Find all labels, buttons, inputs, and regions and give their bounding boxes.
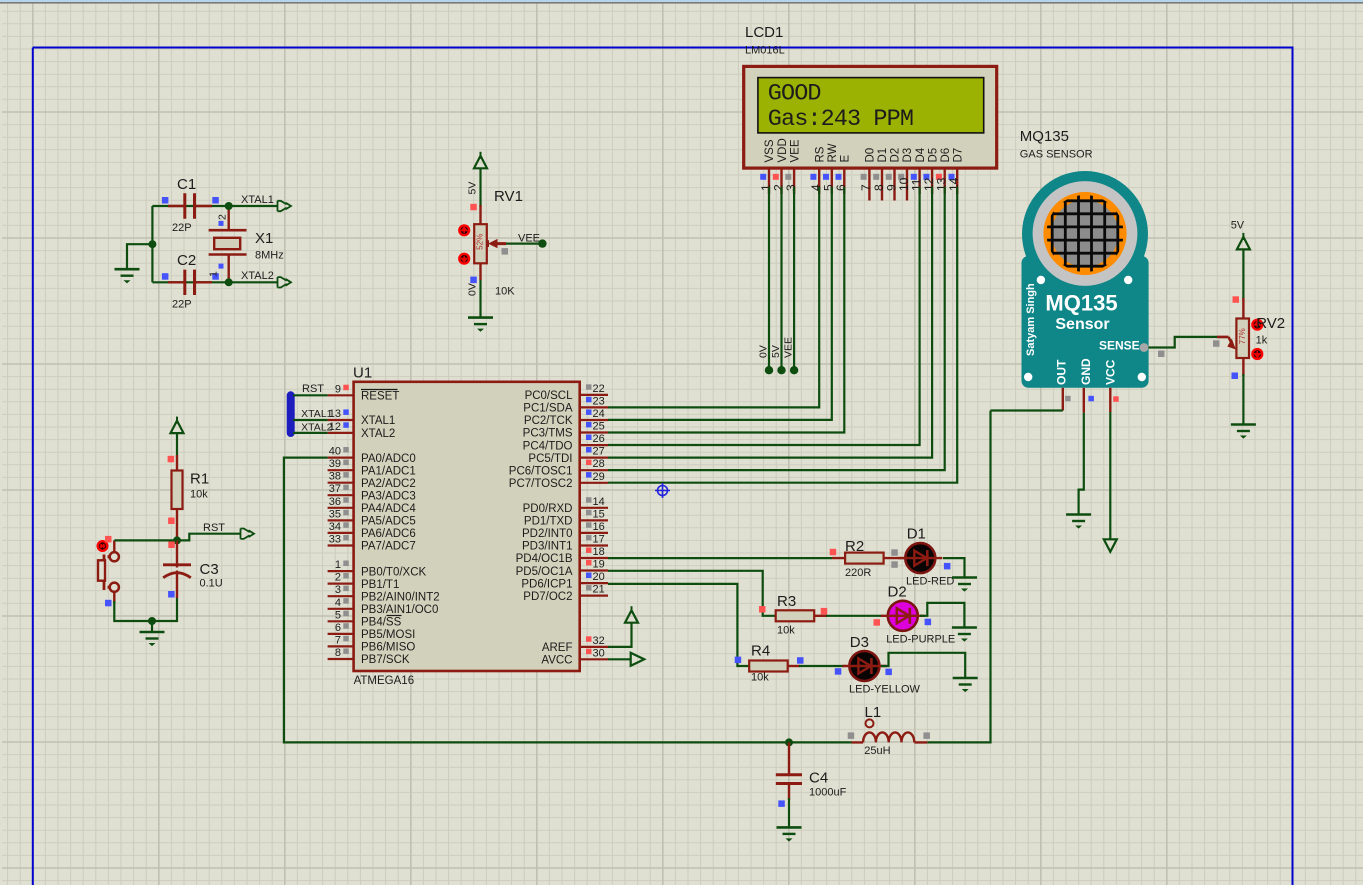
capacitor C4	[776, 742, 847, 807]
pin PB6/MISO (7)	[328, 645, 354, 647]
svg-text:C3: C3	[200, 561, 219, 578]
svg-text:D2: D2	[890, 148, 902, 163]
svg-text:PB7/SCK: PB7/SCK	[361, 654, 410, 666]
svg-text:40: 40	[329, 446, 341, 458]
svg-text:8MHz: 8MHz	[255, 250, 284, 262]
wire button top to RST node	[114, 539, 177, 541]
svg-text:PA7/ADC7: PA7/ADC7	[361, 541, 416, 553]
power arrow AREF	[608, 623, 632, 647]
power arrow down (VCC)	[1104, 539, 1117, 552]
junction ground rail	[148, 617, 156, 625]
LCD pin D7 (14)	[947, 148, 965, 194]
svg-text:XTAL2: XTAL2	[301, 422, 332, 434]
pin PA1/ADC1 (39)	[328, 469, 354, 471]
svg-text:PB3/AIN1/OC0: PB3/AIN1/OC0	[361, 604, 438, 616]
svg-text:0V: 0V	[758, 345, 770, 358]
svg-text:R3: R3	[777, 593, 796, 610]
LCD LM016L body	[744, 66, 997, 168]
svg-text:PD5/OC1A: PD5/OC1A	[516, 566, 573, 578]
wire PC1-RS	[608, 187, 819, 407]
svg-text:AVCC: AVCC	[541, 655, 572, 667]
svg-text:C4: C4	[809, 770, 828, 787]
LCD pin VDD (2)	[771, 138, 789, 194]
wire ground branch	[127, 244, 152, 269]
svg-text:36: 36	[329, 496, 341, 508]
svg-text:37: 37	[329, 483, 341, 495]
svg-text:AREF: AREF	[542, 642, 573, 654]
capacitor C3 (polarized)	[163, 540, 223, 598]
svg-text:VSS: VSS	[764, 139, 776, 162]
svg-text:0V: 0V	[467, 283, 479, 296]
svg-text:PB0/T0/XCK: PB0/T0/XCK	[361, 566, 427, 578]
svg-text:PA1/ADC1: PA1/ADC1	[361, 465, 416, 477]
svg-text:PC1/SDA: PC1/SDA	[523, 403, 573, 415]
ground (RV1)	[468, 318, 493, 332]
wire PA0 to bottom rail	[284, 458, 789, 743]
svg-text:0.1U: 0.1U	[200, 578, 223, 590]
svg-text:PC0/SCL: PC0/SCL	[525, 390, 574, 402]
svg-text:PD4/OC1B: PD4/OC1B	[516, 553, 573, 565]
svg-text:D6: D6	[940, 148, 952, 163]
svg-text:26: 26	[593, 433, 605, 445]
svg-text:VEE: VEE	[518, 232, 540, 244]
pin PB5/MOSI (6)	[328, 633, 354, 635]
svg-text:5V: 5V	[467, 182, 479, 195]
terminal 0V	[765, 366, 773, 374]
power 5V arrow (RV2)	[1237, 237, 1250, 250]
ground (RST group)	[151, 621, 153, 632]
svg-text:VEE: VEE	[783, 337, 795, 358]
svg-text:RV2: RV2	[1256, 315, 1285, 332]
svg-text:LM016L: LM016L	[745, 45, 785, 57]
svg-text:PD2/INT0: PD2/INT0	[522, 528, 573, 540]
svg-text:1: 1	[335, 559, 341, 571]
svg-text:7: 7	[335, 634, 341, 646]
pin PC6/TOSC1 (28)	[580, 469, 608, 471]
junction XTAL1	[225, 202, 233, 210]
pin PA2/ADC2 (38)	[328, 482, 354, 484]
svg-text:23: 23	[593, 395, 605, 407]
svg-text:5V: 5V	[1231, 220, 1245, 232]
pin PA0/ADC0 (40)	[328, 457, 354, 459]
svg-text:9: 9	[335, 383, 341, 395]
LED D1 (red)	[898, 526, 954, 588]
svg-text:PA2/ADC2: PA2/ADC2	[361, 478, 416, 490]
ground (D3)	[953, 678, 978, 692]
resistor R3	[776, 593, 882, 637]
potentiometer RV1	[459, 182, 523, 298]
pin PB0/T0/XCK (1)	[328, 570, 354, 572]
svg-text:LED-RED: LED-RED	[906, 576, 954, 588]
svg-text:33: 33	[329, 534, 341, 546]
wire LCD pin 2 to 5V terminal	[780, 187, 782, 370]
resistor R4	[749, 643, 844, 684]
svg-text:GAS SENSOR: GAS SENSOR	[1020, 148, 1093, 160]
svg-text:19: 19	[593, 559, 605, 571]
wire RST to port	[177, 534, 240, 541]
LED D3 (yellow)	[835, 634, 921, 695]
svg-text:1k: 1k	[1256, 335, 1268, 347]
pin PD7/OC2 (21)	[580, 594, 608, 596]
svg-text:VCC: VCC	[1104, 359, 1118, 385]
wire XTAL2 net (C2 to X1 bottom, XTAL2 port)	[152, 281, 277, 283]
svg-text:ATMEGA16: ATMEGA16	[354, 675, 415, 687]
pin PA4/ADC4 (36)	[328, 507, 354, 509]
svg-text:XTAL2: XTAL2	[241, 270, 274, 282]
inductor L1	[848, 704, 930, 757]
pin PC1/SDA (23)	[580, 406, 608, 408]
pin PC2/TCK (24)	[580, 419, 608, 421]
wire D2 to ground	[920, 603, 964, 627]
wire PC6-D6	[608, 187, 945, 470]
resistor R1	[168, 455, 210, 540]
pin PD3/INT1 (17)	[580, 544, 608, 546]
wire LCD pin 3 to VEE terminal	[793, 187, 795, 370]
pin PB1/T1 (2)	[328, 582, 354, 584]
cursor crosshair	[655, 483, 670, 498]
svg-text:D3: D3	[850, 634, 869, 651]
pin PC4/TDO (26)	[580, 444, 608, 446]
crystal X1	[208, 206, 284, 282]
svg-text:XTAL2: XTAL2	[361, 428, 395, 440]
wire GND to ground	[1079, 413, 1084, 514]
wire PD5 to R3	[608, 571, 776, 616]
bus bar (reset/xtal)	[287, 395, 295, 433]
ground (D1)	[952, 578, 977, 592]
svg-text:16: 16	[593, 521, 605, 533]
capacitor C1	[162, 176, 219, 234]
svg-text:34: 34	[329, 521, 341, 533]
svg-text:PC4/TDO: PC4/TDO	[523, 440, 573, 452]
wire bottom rail right segment	[789, 741, 852, 743]
pin PD2/INT0 (16)	[580, 532, 608, 534]
svg-text:14: 14	[947, 177, 961, 191]
LCD pin D0 (7)	[859, 148, 876, 201]
svg-text:29: 29	[593, 471, 605, 483]
svg-text:28: 28	[593, 458, 605, 470]
LCD pin D5 (12)	[922, 148, 940, 194]
ground (crystal)	[115, 269, 140, 283]
pin PB2/AIN0/INT2 (3)	[328, 595, 354, 597]
pin PD4/OC1B (18)	[580, 557, 608, 559]
svg-text:77%: 77%	[1238, 328, 1247, 344]
svg-text:220R: 220R	[845, 567, 871, 579]
svg-text:32: 32	[593, 635, 605, 647]
svg-text:PC7/TOSC2: PC7/TOSC2	[509, 478, 573, 490]
svg-text:XTAL1: XTAL1	[241, 194, 274, 206]
wire C1/C2 left vertical to ground	[151, 206, 153, 282]
sensor MQ135 body	[1022, 171, 1149, 388]
svg-text:D4: D4	[915, 147, 927, 162]
svg-text:27: 27	[593, 446, 605, 458]
pin PA3/ADC3 (37)	[328, 494, 354, 496]
svg-text:R2: R2	[845, 538, 864, 555]
svg-text:PA4/ADC4: PA4/ADC4	[361, 503, 416, 515]
svg-text:D1: D1	[877, 148, 889, 163]
wire D3 to ground	[881, 653, 965, 678]
junction C1-C2-ground	[148, 240, 156, 248]
svg-text:PC2/TCK: PC2/TCK	[524, 415, 573, 427]
svg-text:10K: 10K	[495, 286, 515, 298]
wire PC5-D5	[608, 187, 932, 458]
wire SENSE to RV2 wiper	[1148, 337, 1218, 348]
svg-text:PA3/ADC3: PA3/ADC3	[361, 490, 416, 502]
svg-text:6: 6	[834, 184, 848, 191]
svg-text:OUT: OUT	[1055, 359, 1069, 385]
wire VCC down	[1109, 412, 1111, 539]
svg-text:C1: C1	[177, 176, 196, 193]
wire button bottom / C3 bottom to ground rail	[114, 598, 177, 621]
svg-text:15: 15	[593, 508, 605, 520]
svg-text:RW: RW	[827, 143, 839, 162]
pin PC0/SCL (22)	[580, 394, 608, 396]
pin PB7/SCK (8)	[328, 658, 354, 660]
svg-text:3: 3	[335, 584, 341, 596]
junction RST node	[173, 536, 181, 544]
wire RV2 to ground	[1242, 374, 1244, 424]
svg-text:D1: D1	[907, 526, 926, 543]
svg-text:17: 17	[593, 534, 605, 546]
LCD pin RW (5)	[822, 143, 840, 194]
wire C4 to ground	[788, 798, 790, 827]
pin PB4/SS (5)	[328, 620, 354, 622]
wire PD4 to R2	[608, 557, 832, 559]
svg-text:PD0/RXD: PD0/RXD	[523, 503, 573, 515]
svg-text:GND: GND	[1079, 358, 1093, 385]
svg-text:52%: 52%	[476, 234, 485, 250]
svg-text:RST: RST	[302, 383, 324, 395]
potentiometer RV2	[1217, 296, 1285, 379]
junction XTAL2	[225, 278, 233, 286]
svg-text:U1: U1	[353, 365, 372, 382]
wire XTAL1 net (C1 to X1 top, XTAL1 port)	[152, 205, 228, 207]
svg-text:XTAL1: XTAL1	[361, 415, 395, 427]
svg-text:35: 35	[329, 508, 341, 520]
svg-text:22: 22	[593, 383, 605, 395]
power arrow AVCC (right)	[608, 658, 631, 660]
svg-text:D3: D3	[902, 148, 914, 163]
svg-text:R4: R4	[751, 643, 770, 660]
ground (D2)	[952, 628, 977, 642]
svg-text:D7: D7	[953, 148, 965, 163]
svg-text:LED-YELLOW: LED-YELLOW	[849, 683, 921, 695]
svg-text:PC6/TOSC1: PC6/TOSC1	[509, 465, 573, 477]
pin PC5/TDI (27)	[580, 457, 608, 459]
svg-text:PD1/TXD: PD1/TXD	[524, 516, 573, 528]
svg-text:RESET: RESET	[361, 391, 399, 403]
power 5V arrow (RV1)	[474, 156, 487, 169]
LED D2 (purple)	[874, 583, 956, 645]
svg-text:2: 2	[217, 214, 229, 220]
pin PD0/RXD (14)	[580, 507, 608, 509]
svg-text:PC3/TMS: PC3/TMS	[523, 428, 573, 440]
LCD pin VSS (1)	[759, 139, 776, 194]
LCD pin D3 (10)	[897, 148, 914, 201]
pin PD5/OC1A (19)	[580, 569, 608, 571]
pin XTAL2 (12)	[328, 432, 354, 434]
svg-text:24: 24	[593, 408, 605, 420]
pin AREF (32)	[580, 646, 608, 648]
terminal VEE	[790, 366, 798, 374]
svg-text:PB1/T1: PB1/T1	[361, 579, 399, 591]
wire RV1 wiper to VEE terminal	[506, 243, 542, 245]
svg-text:RST: RST	[203, 522, 225, 534]
svg-text:C2: C2	[177, 252, 196, 269]
svg-text:MQ135: MQ135	[1020, 128, 1069, 145]
LCD pin VEE (3)	[784, 139, 801, 194]
svg-text:PB6/MISO: PB6/MISO	[361, 642, 415, 654]
svg-text:6: 6	[335, 622, 341, 634]
ground (C4)	[777, 827, 802, 841]
pin PD1/TXD (15)	[580, 519, 608, 521]
svg-text:10k: 10k	[190, 489, 208, 501]
LCD pin D1 (8)	[872, 148, 889, 201]
svg-text:5: 5	[335, 609, 341, 621]
wire PC7-D7	[608, 187, 957, 483]
svg-text:GOOD: GOOD	[768, 81, 821, 108]
terminal 5V	[777, 366, 785, 374]
pin PA5/ADC5 (35)	[328, 519, 354, 521]
LCD pin D4 (11)	[909, 147, 926, 194]
sensor VCC pin	[1109, 388, 1111, 412]
svg-text:PA6/ADC6: PA6/ADC6	[361, 528, 416, 540]
svg-text:RS: RS	[814, 146, 826, 162]
push button	[98, 536, 119, 606]
svg-text:E: E	[840, 155, 852, 163]
svg-text:R1: R1	[190, 471, 209, 488]
ground (RV2)	[1231, 425, 1256, 439]
svg-text:Satyam Singh: Satyam Singh	[1025, 283, 1037, 356]
svg-text:X1: X1	[255, 230, 273, 247]
svg-text:VDD: VDD	[777, 138, 789, 162]
junction bottom rail / C4	[785, 738, 793, 746]
wire PC2-RW	[608, 187, 832, 420]
pin XTAL1 (13)	[328, 419, 354, 421]
svg-text:PB5/MOSI: PB5/MOSI	[361, 629, 415, 641]
pin PB3/AIN1/OC0 (4)	[328, 608, 354, 610]
svg-text:PA0/ADC0: PA0/ADC0	[361, 453, 416, 465]
ground (sensor)	[1066, 515, 1091, 529]
wire OUT to bottom rail	[991, 409, 1063, 411]
wire XTAL1 to pin	[293, 419, 328, 421]
wire XTAL2 to pin	[293, 432, 328, 434]
svg-text:PA5/ADC5: PA5/ADC5	[361, 516, 416, 528]
pin AVCC (30)	[580, 658, 608, 660]
svg-text:RV1: RV1	[494, 188, 523, 205]
svg-text:VEE: VEE	[789, 139, 801, 162]
svg-text:D5: D5	[927, 148, 939, 163]
svg-text:14: 14	[593, 496, 605, 508]
svg-text:Sensor: Sensor	[1055, 316, 1109, 333]
svg-text:38: 38	[329, 471, 341, 483]
wire LCD pin 1 to 0V terminal	[768, 187, 770, 370]
svg-text:PD6/ICP1: PD6/ICP1	[521, 578, 572, 590]
svg-text:10k: 10k	[777, 625, 795, 637]
svg-text:8: 8	[335, 647, 341, 659]
svg-text:Gas:243 PPM: Gas:243 PPM	[768, 106, 913, 133]
svg-text:LCD1: LCD1	[745, 24, 783, 41]
svg-text:XTAL1: XTAL1	[301, 408, 332, 420]
svg-text:PB4/SS: PB4/SS	[361, 617, 402, 629]
capacitor C2	[162, 252, 219, 311]
wire PD6 to R4	[608, 584, 749, 666]
svg-text:22P: 22P	[172, 222, 192, 234]
svg-text:SENSE: SENSE	[1099, 339, 1140, 353]
wire RV1 bottom to ground	[479, 280, 481, 318]
wire D1 to ground	[943, 558, 965, 577]
svg-text:PD3/INT1: PD3/INT1	[522, 541, 573, 553]
power 5V arrow (R1)	[171, 421, 184, 434]
svg-text:5V: 5V	[770, 345, 782, 358]
LCD screen	[758, 78, 984, 133]
pin PD6/ICP1 (20)	[580, 582, 608, 584]
svg-text:1: 1	[208, 271, 220, 277]
LCD pin D6 (13)	[935, 148, 952, 194]
svg-text:25: 25	[593, 421, 605, 433]
svg-text:MQ135: MQ135	[1045, 291, 1117, 316]
LCD pin D2 (9)	[884, 148, 901, 201]
IC U1 ATMEGA16 body	[354, 382, 580, 671]
svg-text:21: 21	[593, 584, 605, 596]
pin PA6/ADC6 (34)	[328, 532, 354, 534]
svg-text:18: 18	[593, 546, 605, 558]
svg-text:2: 2	[335, 572, 341, 584]
svg-text:3: 3	[784, 184, 798, 191]
pin PA7/ADC7 (33)	[328, 544, 354, 546]
svg-text:D2: D2	[888, 583, 907, 600]
wire PC3-E	[608, 187, 844, 433]
svg-text:25uH: 25uH	[864, 745, 890, 757]
svg-text:PD7/OC2: PD7/OC2	[523, 591, 572, 603]
LCD pin E (6)	[834, 155, 851, 195]
svg-text:22P: 22P	[172, 299, 192, 311]
resistor R2	[830, 538, 905, 579]
svg-text:PB2/AIN0/INT2: PB2/AIN0/INT2	[361, 591, 440, 603]
svg-text:LED-PURPLE: LED-PURPLE	[886, 634, 955, 646]
svg-text:PC5/TDI: PC5/TDI	[528, 453, 572, 465]
svg-text:10k: 10k	[751, 672, 769, 684]
sensor GND pin	[1083, 388, 1085, 413]
pin PC7/TOSC2 (29)	[580, 482, 608, 484]
pin PC3/TMS (25)	[580, 431, 608, 433]
svg-text:20: 20	[593, 571, 605, 583]
svg-text:39: 39	[329, 458, 341, 470]
sensor OUT pin	[1062, 388, 1064, 411]
pin RESET (9)	[328, 394, 354, 396]
wire RST to RESET pin	[293, 394, 328, 396]
svg-text:1000uF: 1000uF	[809, 786, 847, 798]
svg-text:L1: L1	[865, 704, 882, 721]
svg-text:4: 4	[335, 597, 341, 609]
svg-text:30: 30	[593, 647, 605, 659]
wire PC4-D4	[608, 187, 920, 445]
LCD pin RS (4)	[809, 146, 826, 194]
svg-text:D0: D0	[865, 148, 877, 163]
